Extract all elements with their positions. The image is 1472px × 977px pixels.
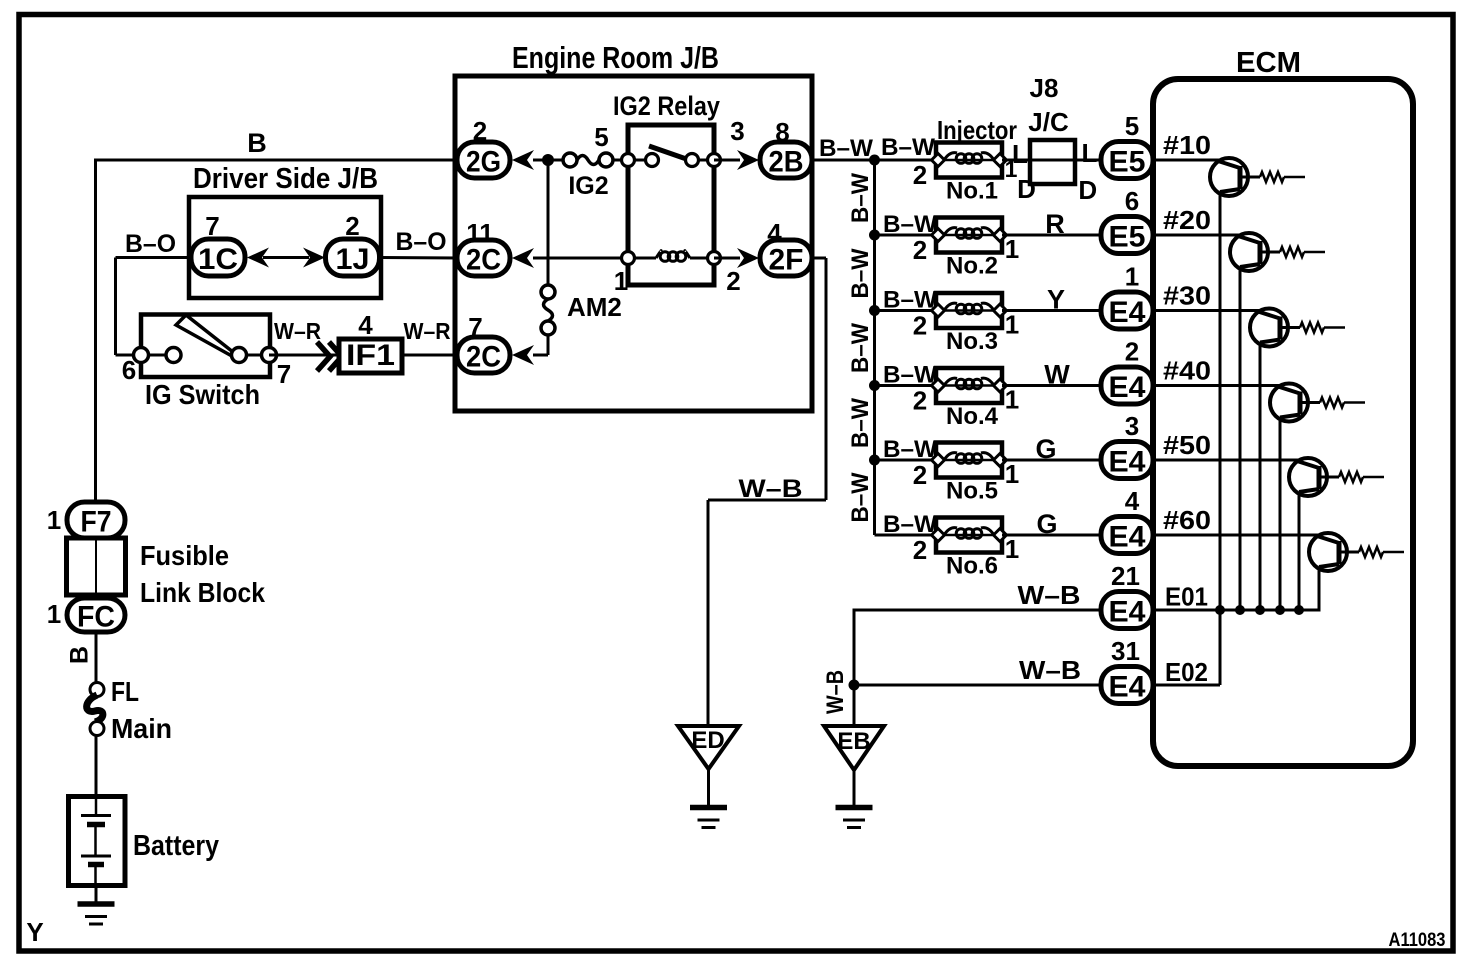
svg-text:E4: E4 (1109, 296, 1146, 329)
label G row 5 (1035, 434, 1056, 464)
switch SW1 box (141, 315, 270, 378)
label G row 6 (1036, 509, 1057, 539)
transistor Q6 (1156, 533, 1404, 571)
svg-text:2: 2 (913, 160, 927, 190)
connector E4 row 5 (1101, 442, 1153, 479)
svg-text:B–W: B–W (847, 472, 874, 522)
wire emitter Q1 (1219, 192, 1222, 610)
junction dot bus row 3 (869, 305, 880, 316)
wire injector No.5 to ECM (1002, 459, 1104, 462)
wire 1J to 2C (377, 256, 459, 260)
relay switch blade (649, 146, 695, 162)
label B-W bus rotated 5 (847, 472, 874, 522)
svg-text:W–B: W–B (1018, 580, 1081, 610)
wire emitter Q5 (1298, 492, 1301, 610)
pin 1 label injector No.3 (1005, 310, 1019, 340)
svg-text:D: D (1078, 175, 1097, 205)
svg-text:EB: EB (837, 728, 870, 755)
label W-R right (404, 318, 451, 344)
junction dot rail 1 (1215, 605, 1225, 615)
pin 4 label IF1 (358, 310, 373, 340)
svg-text:E4: E4 (1109, 521, 1146, 554)
svg-text:B–W: B–W (881, 134, 935, 161)
pin 1 label injector No.5 (1005, 459, 1019, 489)
relay top pin circles (622, 154, 721, 167)
fuse IF1 (339, 339, 402, 373)
svg-text:Link Block: Link Block (140, 577, 265, 608)
svg-text:L: L (1082, 138, 1098, 168)
svg-text:2: 2 (913, 311, 927, 341)
svg-text:B–W: B–W (847, 248, 874, 298)
pin 2 label injector No.1 (913, 160, 927, 190)
injector No.6 (932, 518, 1007, 553)
svg-text:E01: E01 (1165, 582, 1208, 612)
label W-B ED (739, 475, 803, 503)
svg-text:2: 2 (913, 235, 927, 265)
svg-text:6: 6 (1125, 186, 1139, 216)
label B-W injector No.4 (883, 362, 937, 389)
connector 2C pin 11 (457, 240, 510, 277)
label Injector (937, 115, 1017, 145)
junction dot rail 2 (1235, 605, 1245, 615)
connector 2C pin 7 (457, 337, 510, 374)
svg-text:2: 2 (913, 535, 927, 565)
wire FL to battery (95, 735, 98, 815)
svg-text:#10: #10 (1163, 130, 1211, 160)
wire E02 left (854, 684, 1104, 687)
svg-text:E4: E4 (1109, 371, 1146, 404)
svg-text:2G: 2G (466, 146, 501, 179)
wire bus to injector No.3 (875, 309, 939, 312)
label AM2 (567, 292, 622, 322)
connector 2B (760, 142, 812, 179)
wire injector No.3 to ECM (1002, 309, 1104, 312)
svg-text:F7: F7 (81, 506, 112, 539)
label W-B E01 (1018, 580, 1081, 610)
svg-text:E5: E5 (1109, 221, 1146, 254)
wire 2F to ED (708, 258, 826, 727)
wire 1C to 1J (263, 256, 309, 259)
wire 2C to relay coil (533, 257, 628, 260)
svg-text:#40: #40 (1163, 356, 1211, 386)
label B-W injector No.5 (883, 436, 937, 463)
wire bus to injector No.2 (875, 234, 939, 237)
fuse IG2 (563, 153, 613, 167)
label B-W bus rotated 1 (847, 173, 874, 223)
label No.4 (946, 403, 999, 430)
transistor Q2 (1156, 233, 1325, 271)
svg-text:2: 2 (1125, 337, 1139, 367)
svg-text:6: 6 (122, 355, 136, 385)
connector E4 row 6 (1101, 517, 1153, 554)
svg-text:7: 7 (277, 359, 291, 389)
label B-W row1 b (881, 134, 935, 161)
svg-text:Y: Y (1047, 285, 1065, 315)
svg-text:J/C: J/C (1028, 107, 1069, 137)
pin 6 label (122, 355, 136, 385)
label J8 (1030, 73, 1059, 103)
svg-text:W–B: W–B (739, 475, 803, 503)
wire bus to injector No.6 (875, 534, 939, 537)
pin 3 label E-row5 (1125, 411, 1139, 441)
fusible link block (67, 538, 126, 595)
wire 2G to node (533, 159, 566, 162)
label B-O right (396, 228, 447, 256)
pin 1 label FC (47, 599, 61, 629)
label B-W bus rotated 2 (847, 248, 874, 298)
wire AM2 to 2C-7 (533, 335, 548, 355)
label Driver Side J/B (193, 163, 378, 195)
wire bus to injector No.4 (875, 384, 939, 387)
label L right (1082, 138, 1098, 168)
svg-text:B–W: B–W (883, 362, 937, 389)
svg-text:No.2: No.2 (946, 253, 998, 280)
svg-text:Driver Side J/B: Driver Side J/B (193, 163, 378, 195)
pin 1 label injector No.4 (1005, 385, 1019, 415)
connector arrow into 2F (737, 248, 759, 268)
svg-text:B–W: B–W (883, 511, 937, 538)
label W-B E02 (1019, 655, 1081, 685)
pin 2 label injector No.3 (913, 311, 927, 341)
injector No.4 (932, 368, 1007, 403)
label No.3 (946, 328, 998, 355)
svg-text:3: 3 (730, 116, 744, 146)
pin 1 label injector No.1 (1005, 156, 1018, 182)
label IG2 Relay (613, 91, 720, 121)
wire 2B to injector No.1 (812, 159, 938, 162)
connector 2G (457, 142, 510, 179)
svg-text:2C: 2C (466, 244, 501, 277)
connector arrow into 2C-11 (512, 248, 534, 268)
connector arrow into 2G (512, 150, 534, 170)
svg-text:G: G (1035, 434, 1056, 464)
pin 1 label E-row3 (1125, 262, 1139, 292)
junction block Engine Room J/B box (455, 76, 812, 411)
label Engine Room J/B (512, 40, 719, 75)
label B-W injector No.6 (883, 511, 937, 538)
label E02 (1165, 657, 1208, 687)
svg-text:FC: FC (77, 601, 115, 634)
svg-text:No.3: No.3 (946, 328, 998, 355)
label #60 (1163, 505, 1211, 535)
svg-text:B: B (247, 128, 267, 158)
svg-text:B–W: B–W (883, 211, 937, 238)
svg-text:4: 4 (358, 310, 373, 340)
connector 1C (191, 239, 245, 276)
bus wire B-W vertical (873, 160, 876, 535)
pin 7 label (277, 359, 291, 389)
wire emitter Q4 (1279, 418, 1282, 611)
transistor Q1 (1156, 158, 1305, 196)
label B-W row1 a (819, 135, 873, 162)
svg-text:ECM: ECM (1236, 47, 1301, 79)
svg-text:IG Switch: IG Switch (145, 379, 260, 410)
wire fuse to relay (612, 159, 630, 162)
svg-text:AM2: AM2 (567, 292, 622, 322)
pin 2 label injector No.4 (913, 386, 927, 416)
connector 2F (760, 240, 812, 277)
svg-text:2F: 2F (769, 244, 804, 277)
svg-text:2B: 2B (769, 146, 804, 179)
svg-text:Injector: Injector (937, 115, 1017, 145)
wire switch internal left (141, 354, 174, 357)
label Battery (133, 830, 219, 862)
label B-W injector No.3 (883, 287, 937, 314)
pin 3 label relay (730, 116, 744, 146)
wire bus to injector No.5 (875, 459, 939, 462)
connector 1J (326, 239, 380, 276)
ground triangle ED (678, 726, 739, 769)
pin 31 label (1111, 636, 1140, 666)
junction dot rail 5 (1294, 605, 1304, 615)
svg-text:Fusible: Fusible (140, 540, 229, 571)
junction block Driver Side J/B box (189, 197, 381, 298)
wire EB to ground (853, 770, 856, 806)
svg-text:E4: E4 (1109, 446, 1146, 479)
pin 4 label 2F (767, 218, 782, 248)
wire switch to IF1 (269, 354, 339, 357)
wire E01 left (854, 609, 1104, 612)
svg-text:#50: #50 (1163, 430, 1211, 460)
connector E4 E02 (1101, 667, 1153, 704)
wire ED to ground (707, 769, 710, 806)
svg-text:3: 3 (1125, 411, 1139, 441)
page code Y (26, 917, 43, 947)
svg-text:1: 1 (1005, 385, 1019, 415)
svg-text:Engine Room J/B: Engine Room J/B (512, 40, 719, 75)
node B label (247, 128, 267, 158)
svg-text:R: R (1045, 209, 1065, 239)
wire relay to 2F (714, 257, 740, 260)
pin 2 label 2G (473, 116, 487, 146)
label #10 (1163, 130, 1211, 160)
wire emitter Q3 (1259, 343, 1262, 611)
label R row 2 (1045, 209, 1065, 239)
svg-text:E02: E02 (1165, 657, 1208, 687)
junction dot bus row 4 (869, 380, 880, 391)
switch pole circles (134, 348, 277, 363)
label No.5 (946, 478, 998, 505)
pin 11 label 2C (466, 218, 494, 248)
svg-text:ED: ED (691, 727, 724, 754)
pin 8 label 2B (775, 117, 789, 147)
junction dot EB (849, 680, 860, 691)
battery BAT (69, 797, 126, 887)
svg-text:21: 21 (1111, 561, 1140, 591)
svg-text:#30: #30 (1163, 281, 1211, 311)
svg-text:J8: J8 (1030, 73, 1059, 103)
wire injector No.4 to ECM (1002, 384, 1104, 387)
svg-text:2: 2 (913, 386, 927, 416)
fusible link FL Main (87, 683, 104, 736)
connector E4 row 4 (1101, 367, 1153, 404)
junction dot rail 3 (1255, 605, 1265, 615)
label #20 (1163, 205, 1211, 235)
svg-text:2C: 2C (466, 341, 501, 374)
junction connector J8 J/C (1030, 140, 1075, 184)
svg-text:1J: 1J (336, 243, 370, 276)
wire emitter Q6 (1318, 567, 1321, 612)
connector E4 row 3 (1101, 292, 1153, 329)
relay coil (628, 251, 714, 262)
fuse AM2 (541, 285, 555, 335)
svg-text:1C: 1C (198, 243, 238, 276)
pin 2 label injector No.5 (913, 460, 927, 490)
pin 1 label injector No.6 (1005, 534, 1019, 564)
wire injector No.1 to ECM (1002, 159, 1104, 162)
connector arrow into 1J (303, 248, 325, 268)
svg-text:E5: E5 (1109, 146, 1146, 179)
wire FC to FL (95, 632, 98, 683)
svg-text:W–B: W–B (822, 670, 849, 714)
label #50 (1163, 430, 1211, 460)
svg-text:E4: E4 (1109, 596, 1146, 629)
label W-R left (274, 318, 321, 344)
net B label rotated (66, 646, 94, 664)
wire IF1 to 2C (402, 354, 459, 357)
transistor Q3 (1156, 309, 1345, 347)
label No.2 (946, 253, 998, 280)
relay bottom pin circles (622, 252, 721, 265)
label D left (1017, 174, 1036, 204)
wire emitter Q2 (1239, 267, 1242, 610)
svg-text:No.5: No.5 (946, 478, 998, 505)
pin 2 label 1J (345, 211, 359, 241)
wire E01 rail (1153, 609, 1319, 612)
svg-text:No.6: No.6 (946, 553, 998, 580)
junction dot bus row 5 (869, 455, 880, 466)
svg-text:W–B: W–B (1019, 655, 1081, 685)
pin 1 label injector No.2 (1005, 234, 1019, 264)
svg-text:B–W: B–W (819, 135, 873, 162)
pin 1 label relay (614, 266, 628, 296)
ground EB (836, 808, 873, 828)
pin 7 label 2C (468, 312, 482, 342)
wire injector No.2 to ECM (1002, 234, 1104, 237)
junction dot rail 4 (1275, 605, 1285, 615)
svg-text:1: 1 (1005, 534, 1019, 564)
wire injector No.6 to ECM (1002, 534, 1104, 537)
wire switch internal right (239, 354, 269, 357)
svg-text:1: 1 (47, 505, 61, 535)
pin 2 label E-row4 (1125, 337, 1139, 367)
wire B-O left (116, 258, 194, 356)
label W-B rotated EB (822, 670, 849, 714)
label No.1 (946, 178, 998, 205)
svg-text:A11083: A11083 (1389, 930, 1446, 951)
ground battery (78, 904, 115, 924)
junction dot bus row 1 (869, 155, 880, 166)
connector arrow into 1C (247, 248, 269, 268)
relay IG2 box (628, 125, 714, 285)
svg-text:2: 2 (726, 266, 740, 296)
svg-text:#60: #60 (1163, 505, 1211, 535)
wire E01 down to EB (853, 609, 856, 728)
svg-text:No.4: No.4 (946, 403, 999, 430)
svg-text:W–R: W–R (404, 318, 451, 344)
svg-text:D: D (1017, 174, 1036, 204)
svg-text:FL: FL (111, 676, 139, 707)
ground triangle EB (824, 726, 884, 770)
pin 6 label E-row2 (1125, 186, 1139, 216)
label Y row 3 (1047, 285, 1065, 315)
connector arrow into 2C-7 (512, 345, 534, 365)
ground ED (690, 808, 727, 828)
svg-text:B–W: B–W (847, 323, 874, 373)
connector F7 (67, 502, 125, 539)
pin 2 label injector No.6 (913, 535, 927, 565)
svg-text:IG2 Relay: IG2 Relay (613, 91, 720, 121)
svg-text:1: 1 (1125, 262, 1139, 292)
pin 1 label F7 (47, 505, 61, 535)
pin 2 label injector No.2 (913, 235, 927, 265)
transistor Q5 (1156, 458, 1384, 496)
svg-text:4: 4 (1125, 486, 1140, 516)
svg-text:B–O: B–O (396, 228, 447, 256)
svg-text:L: L (1012, 139, 1028, 169)
label B-W injector No.2 (883, 211, 937, 238)
label ECM (1236, 47, 1301, 79)
label No.6 (946, 553, 998, 580)
connector arrow into 2B (737, 150, 759, 170)
svg-text:Y: Y (26, 917, 43, 947)
svg-text:1: 1 (1005, 310, 1019, 340)
svg-text:1: 1 (1005, 234, 1019, 264)
pin 7 label 1C (205, 211, 219, 241)
connector FC (67, 598, 125, 634)
wire relay top internal (628, 159, 714, 162)
svg-text:1: 1 (47, 599, 61, 629)
label B-W bus rotated 3 (847, 323, 874, 373)
svg-text:B–W: B–W (883, 436, 937, 463)
injector No.3 (932, 293, 1007, 328)
label FL Main (111, 676, 172, 744)
pin 4 label E-row6 (1125, 486, 1140, 516)
svg-text:1: 1 (1005, 459, 1019, 489)
figure number A11083 (1389, 930, 1446, 951)
pin 21 label (1111, 561, 1140, 591)
switch blade (176, 315, 233, 355)
svg-text:G: G (1036, 509, 1057, 539)
label B-W bus rotated 4 (847, 398, 874, 448)
connector E5 row 2 (1101, 217, 1153, 254)
svg-text:IF1: IF1 (346, 339, 395, 372)
label D right (1078, 175, 1097, 205)
label J/C (1028, 107, 1069, 137)
injector No.5 (932, 443, 1007, 478)
svg-text:B: B (66, 646, 94, 664)
label #30 (1163, 281, 1211, 311)
svg-text:5: 5 (594, 122, 608, 152)
pin 5 label relay (594, 122, 608, 152)
connector chevrons (317, 342, 342, 371)
connector E4 E01 (1101, 592, 1153, 629)
transistor Q4 (1156, 384, 1365, 422)
ECM box (1153, 79, 1413, 766)
junction dot bus row 2 (869, 230, 880, 241)
svg-text:2: 2 (913, 460, 927, 490)
label B-O left (125, 230, 176, 258)
connector E5 row 1 (1101, 142, 1153, 179)
svg-text:W: W (1044, 360, 1070, 390)
svg-text:B–O: B–O (125, 230, 176, 258)
svg-text:#20: #20 (1163, 205, 1211, 235)
label #40 (1163, 356, 1211, 386)
svg-text:B–W: B–W (847, 173, 874, 223)
wire node to AM2 (547, 160, 550, 292)
svg-text:E4: E4 (1109, 671, 1146, 704)
wire B top horizontal (96, 159, 460, 162)
